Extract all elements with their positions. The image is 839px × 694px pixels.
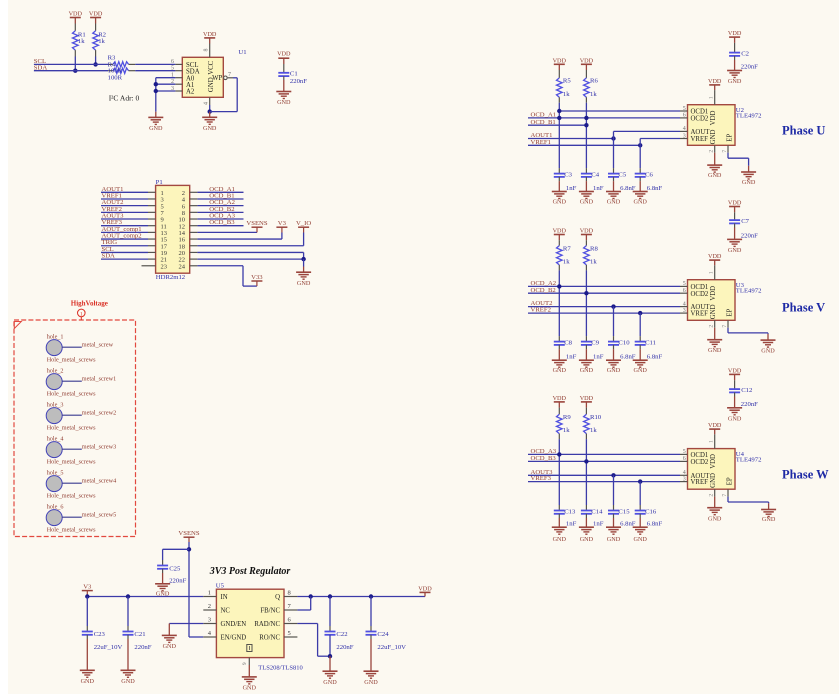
svg-text:3V3 Post Regulator: 3V3 Post Regulator: [209, 566, 291, 577]
svg-text:I²C Adr: 0: I²C Adr: 0: [109, 94, 140, 103]
svg-text:GND: GND: [607, 199, 621, 206]
svg-text:TLS208/TLS810: TLS208/TLS810: [258, 665, 302, 672]
svg-text:8: 8: [288, 590, 291, 597]
svg-text:Hole_metal_screws: Hole_metal_screws: [47, 493, 96, 500]
svg-text:GND: GND: [364, 679, 378, 686]
svg-text:RAD/NC: RAD/NC: [254, 621, 280, 628]
svg-text:1k: 1k: [563, 427, 570, 434]
svg-text:OCD2: OCD2: [691, 459, 709, 466]
svg-text:metal_screw: metal_screw: [82, 342, 114, 349]
svg-text:7: 7: [722, 325, 728, 328]
svg-text:1nF: 1nF: [566, 354, 577, 361]
svg-text:1k: 1k: [98, 38, 105, 45]
svg-text:metal_screw5: metal_screw5: [82, 512, 116, 519]
svg-text:C14: C14: [591, 508, 603, 515]
svg-text:23: 23: [161, 263, 168, 270]
svg-text:GND: GND: [710, 473, 717, 488]
svg-text:Phase W: Phase W: [782, 468, 829, 482]
svg-text:1nF: 1nF: [593, 354, 604, 361]
svg-text:Phase U: Phase U: [782, 124, 825, 138]
svg-text:GND: GND: [297, 280, 311, 287]
svg-text:VDD: VDD: [69, 11, 83, 18]
svg-text:VSENS: VSENS: [246, 220, 267, 227]
svg-text:6: 6: [683, 456, 686, 462]
svg-text:C24: C24: [377, 631, 389, 638]
svg-text:A2: A2: [186, 89, 195, 96]
svg-text:VREF: VREF: [691, 479, 709, 486]
svg-text:3: 3: [208, 617, 211, 624]
svg-text:AOUT: AOUT: [691, 129, 711, 136]
svg-text:C25: C25: [169, 565, 181, 572]
svg-text:1: 1: [709, 271, 715, 274]
svg-text:VDD: VDD: [708, 422, 722, 429]
svg-text:22uF_10V: 22uF_10V: [94, 644, 123, 651]
svg-text:metal_screw4: metal_screw4: [82, 478, 116, 485]
svg-text:1: 1: [709, 96, 715, 99]
svg-text:5: 5: [683, 106, 686, 112]
svg-text:VREF: VREF: [691, 136, 709, 143]
svg-text:5: 5: [171, 66, 174, 72]
svg-text:SDA: SDA: [102, 253, 116, 260]
svg-text:GND: GND: [762, 516, 776, 523]
svg-text:5: 5: [683, 449, 686, 455]
svg-text:220nF: 220nF: [741, 233, 758, 240]
svg-text:6: 6: [683, 288, 686, 294]
svg-text:GND: GND: [633, 536, 647, 543]
svg-text:1: 1: [208, 590, 211, 597]
svg-text:C3: C3: [564, 171, 572, 178]
svg-text:C12: C12: [741, 387, 752, 394]
svg-text:GND: GND: [81, 678, 95, 685]
svg-text:GND: GND: [121, 678, 135, 685]
svg-text:GND: GND: [203, 125, 217, 132]
svg-text:GND: GND: [580, 367, 594, 374]
svg-text:GND: GND: [761, 347, 775, 354]
svg-text:C23: C23: [94, 631, 106, 638]
svg-text:EN/GND: EN/GND: [221, 635, 247, 642]
svg-text:5: 5: [288, 630, 291, 637]
svg-text:GND: GND: [277, 99, 291, 106]
svg-text:6: 6: [683, 113, 686, 119]
svg-text:IN: IN: [221, 594, 228, 601]
svg-text:C15: C15: [618, 508, 630, 515]
svg-text:4: 4: [683, 470, 686, 476]
svg-text:VDD: VDD: [418, 586, 432, 593]
svg-text:GND: GND: [580, 536, 594, 543]
svg-text:7: 7: [722, 150, 728, 153]
svg-text:GND: GND: [708, 515, 722, 522]
svg-text:C1: C1: [290, 70, 298, 77]
svg-text:GND: GND: [553, 367, 567, 374]
svg-text:C8: C8: [564, 339, 572, 346]
svg-text:GND: GND: [553, 536, 567, 543]
svg-text:OCD1: OCD1: [691, 452, 709, 459]
svg-text:Hole_metal_screws: Hole_metal_screws: [47, 527, 96, 534]
svg-text:4: 4: [203, 102, 209, 105]
svg-text:C7: C7: [741, 218, 749, 225]
svg-text:C21: C21: [134, 631, 145, 638]
svg-text:VDD: VDD: [277, 50, 291, 57]
svg-text:Hole_metal_screws: Hole_metal_screws: [47, 391, 96, 398]
svg-text:GND: GND: [708, 347, 722, 354]
svg-text:VDD: VDD: [89, 11, 103, 18]
svg-text:C5: C5: [618, 171, 626, 178]
svg-text:2: 2: [709, 150, 715, 153]
svg-text:R9: R9: [563, 414, 571, 421]
svg-text:Hole_metal_screws: Hole_metal_screws: [47, 425, 96, 432]
svg-text:HDR2m12: HDR2m12: [156, 274, 185, 281]
svg-text:VREF3: VREF3: [531, 475, 552, 482]
svg-text:1k: 1k: [78, 38, 85, 45]
svg-text:220nF: 220nF: [290, 78, 307, 85]
svg-text:GND/EN: GND/EN: [221, 621, 247, 628]
svg-text:GND: GND: [728, 415, 742, 422]
svg-text:3: 3: [683, 133, 686, 139]
svg-text:C9: C9: [591, 339, 599, 346]
svg-text:VREF: VREF: [691, 311, 709, 318]
svg-text:VREF1: VREF1: [531, 139, 551, 146]
svg-text:1nF: 1nF: [566, 185, 577, 192]
svg-text:2: 2: [709, 494, 715, 497]
svg-text:1k: 1k: [563, 259, 570, 266]
svg-text:7: 7: [228, 72, 231, 78]
svg-text:1k: 1k: [590, 259, 597, 266]
svg-text:C22: C22: [336, 631, 347, 638]
svg-text:9: 9: [242, 662, 248, 665]
svg-text:1: 1: [80, 311, 83, 317]
svg-text:VDD: VDD: [553, 57, 567, 64]
svg-text:GND: GND: [728, 247, 742, 254]
svg-text:metal_screw1: metal_screw1: [82, 376, 116, 383]
svg-text:R8: R8: [590, 245, 598, 252]
svg-text:GND: GND: [710, 130, 717, 145]
svg-text:SDA: SDA: [186, 68, 200, 75]
svg-text:R7: R7: [563, 245, 571, 252]
svg-text:C13: C13: [564, 508, 576, 515]
svg-text:1k: 1k: [563, 91, 570, 98]
svg-text:OCD_A1: OCD_A1: [531, 112, 557, 119]
svg-text:EP: EP: [727, 477, 734, 485]
svg-text:1nF: 1nF: [593, 185, 604, 192]
svg-text:VDD: VDD: [580, 228, 594, 235]
svg-text:OCD_A3: OCD_A3: [531, 448, 557, 455]
svg-text:GND: GND: [742, 179, 756, 186]
svg-text:V33: V33: [251, 274, 263, 281]
svg-text:GND: GND: [633, 367, 647, 374]
svg-text:GND: GND: [708, 172, 722, 179]
svg-text:R5: R5: [563, 78, 571, 85]
svg-text:VDD: VDD: [728, 367, 742, 374]
svg-text:8: 8: [203, 49, 209, 52]
svg-text:TLE4972: TLE4972: [736, 288, 762, 295]
svg-text:C16: C16: [645, 508, 657, 515]
svg-text:220nF: 220nF: [741, 64, 758, 71]
svg-text:RO/NC: RO/NC: [259, 635, 280, 642]
svg-text:GND: GND: [553, 199, 567, 206]
svg-text:1nF: 1nF: [593, 521, 604, 528]
svg-text:GND: GND: [607, 367, 621, 374]
svg-text:220nF: 220nF: [134, 644, 151, 651]
svg-text:Q: Q: [275, 594, 280, 601]
svg-text:metal_screw3: metal_screw3: [82, 444, 116, 451]
svg-text:1k: 1k: [590, 427, 597, 434]
svg-text:C11: C11: [645, 339, 656, 346]
svg-text:TLE4972: TLE4972: [736, 113, 762, 120]
svg-text:VDD: VDD: [580, 395, 594, 402]
svg-text:VDD: VDD: [728, 200, 742, 207]
svg-text:GND: GND: [163, 643, 177, 650]
svg-text:6.8nF: 6.8nF: [647, 521, 663, 528]
svg-text:VDD: VDD: [710, 111, 717, 126]
svg-text:GND: GND: [607, 536, 621, 543]
svg-text:OCD2: OCD2: [691, 116, 709, 123]
svg-text:VDD: VDD: [553, 228, 567, 235]
svg-text:22uF_10V: 22uF_10V: [377, 644, 406, 651]
svg-text:1k: 1k: [590, 91, 597, 98]
svg-text:VCC: VCC: [208, 60, 215, 74]
svg-text:OCD2: OCD2: [691, 291, 709, 298]
svg-text:2: 2: [208, 603, 211, 610]
svg-text:VDD: VDD: [553, 395, 567, 402]
svg-text:VREF2: VREF2: [531, 307, 551, 314]
svg-text:VDD: VDD: [710, 454, 717, 469]
svg-text:VDD: VDD: [728, 30, 742, 37]
svg-text:Hole_metal_screws: Hole_metal_screws: [47, 357, 96, 364]
svg-text:1: 1: [709, 440, 715, 443]
svg-text:100R: 100R: [108, 74, 123, 81]
svg-text:GND: GND: [710, 304, 717, 319]
svg-text:OCD_B3: OCD_B3: [531, 455, 557, 462]
svg-text:1nF: 1nF: [566, 521, 577, 528]
svg-text:WP: WP: [212, 75, 222, 82]
svg-text:220nF: 220nF: [169, 577, 186, 584]
svg-text:V3: V3: [83, 584, 92, 591]
svg-text:3: 3: [683, 308, 686, 314]
svg-text:OCD_B2: OCD_B2: [531, 287, 556, 294]
svg-text:GND: GND: [149, 125, 163, 132]
svg-text:VDD: VDD: [708, 253, 722, 260]
svg-text:VSENS: VSENS: [178, 530, 199, 537]
svg-text:TLE4972: TLE4972: [736, 457, 762, 464]
svg-text:GND: GND: [323, 679, 337, 686]
svg-text:220nF: 220nF: [336, 644, 353, 651]
svg-text:FB/NC: FB/NC: [260, 608, 280, 615]
svg-text:P1: P1: [156, 179, 163, 186]
svg-text:C2: C2: [741, 50, 749, 57]
svg-text:V_IO: V_IO: [296, 220, 311, 227]
svg-text:4: 4: [683, 126, 686, 132]
svg-text:4: 4: [683, 301, 686, 307]
svg-text:VDD: VDD: [708, 78, 722, 85]
svg-text:metal_screw2: metal_screw2: [82, 410, 116, 417]
svg-text:6.8nF: 6.8nF: [647, 185, 663, 192]
svg-text:24: 24: [179, 263, 186, 270]
svg-text:GND: GND: [633, 199, 647, 206]
svg-text:6.8nF: 6.8nF: [647, 354, 663, 361]
svg-text:5: 5: [683, 281, 686, 287]
svg-text:OCD_B3: OCD_B3: [209, 219, 235, 226]
svg-text:VDD: VDD: [710, 286, 717, 301]
svg-text:3: 3: [683, 476, 686, 482]
svg-text:Phase V: Phase V: [782, 301, 825, 315]
svg-text:7: 7: [722, 494, 728, 497]
svg-text:R6: R6: [590, 78, 598, 85]
svg-text:EP: EP: [727, 308, 734, 316]
svg-text:2: 2: [709, 325, 715, 328]
svg-text:C4: C4: [591, 171, 599, 178]
svg-text:OCD_B1: OCD_B1: [531, 119, 556, 126]
svg-text:C6: C6: [645, 171, 653, 178]
svg-text:R10: R10: [590, 414, 602, 421]
svg-text:EP: EP: [727, 134, 734, 142]
svg-text:NC: NC: [221, 608, 231, 615]
svg-text:Hole_metal_screws: Hole_metal_screws: [47, 459, 96, 466]
svg-text:VDD: VDD: [580, 57, 594, 64]
svg-text:6: 6: [171, 59, 174, 65]
svg-text:HighVoltage: HighVoltage: [71, 300, 108, 308]
svg-text:GND: GND: [580, 199, 594, 206]
svg-text:220nF: 220nF: [741, 401, 758, 408]
svg-text:C10: C10: [618, 339, 630, 346]
svg-text:U1: U1: [238, 49, 246, 56]
svg-text:GND: GND: [243, 685, 257, 692]
svg-text:V3: V3: [278, 220, 287, 227]
svg-text:U5: U5: [216, 583, 225, 590]
svg-text:GND: GND: [728, 78, 742, 85]
